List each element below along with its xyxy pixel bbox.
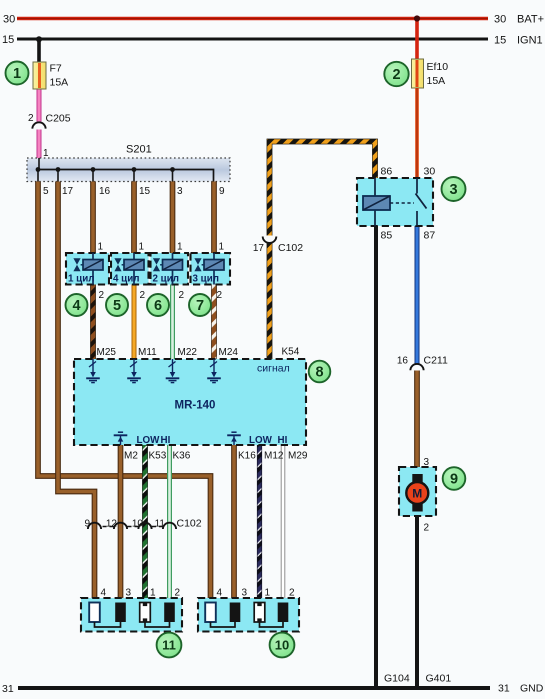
- svg-text:1: 1: [219, 242, 225, 253]
- svg-text:87: 87: [424, 230, 436, 242]
- svg-text:M12: M12: [264, 451, 284, 462]
- svg-text:2 цил: 2 цил: [153, 274, 179, 285]
- svg-text:M2: M2: [124, 451, 138, 462]
- svg-text:MR-140: MR-140: [175, 400, 216, 412]
- svg-text:M25: M25: [97, 347, 117, 358]
- svg-text:4: 4: [217, 588, 223, 599]
- svg-text:12: 12: [106, 519, 118, 530]
- svg-text:3: 3: [177, 186, 183, 197]
- svg-text:M11: M11: [138, 347, 157, 358]
- svg-text:IGN1: IGN1: [517, 35, 543, 47]
- svg-text:31: 31: [2, 683, 14, 695]
- svg-text:4: 4: [101, 588, 107, 599]
- svg-text:3: 3: [449, 182, 457, 198]
- svg-text:2: 2: [392, 67, 400, 83]
- svg-text:17: 17: [253, 243, 265, 254]
- svg-text:M: M: [412, 486, 422, 500]
- svg-text:3 цил: 3 цил: [193, 274, 219, 285]
- svg-text:4 цил: 4 цил: [113, 274, 139, 285]
- svg-text:1: 1: [150, 588, 156, 599]
- svg-text:K54: K54: [282, 347, 300, 358]
- svg-text:1: 1: [43, 148, 49, 159]
- svg-text:86: 86: [381, 166, 393, 178]
- svg-text:G104: G104: [384, 673, 410, 685]
- svg-text:F7: F7: [50, 63, 62, 75]
- svg-text:2: 2: [99, 290, 105, 301]
- svg-text:10: 10: [275, 638, 289, 653]
- svg-text:G401: G401: [426, 673, 452, 685]
- svg-text:M24: M24: [219, 347, 239, 358]
- svg-text:2: 2: [175, 588, 181, 599]
- svg-text:3: 3: [242, 588, 248, 599]
- svg-text:1: 1: [177, 242, 183, 253]
- svg-text:2: 2: [424, 523, 430, 534]
- svg-text:7: 7: [196, 298, 204, 314]
- svg-text:сигнал: сигнал: [257, 363, 290, 375]
- svg-text:Ef10: Ef10: [427, 61, 449, 73]
- svg-text:6: 6: [154, 298, 162, 314]
- svg-text:LOW: LOW: [137, 435, 161, 446]
- svg-text:2: 2: [140, 290, 146, 301]
- svg-text:LOW: LOW: [249, 435, 273, 446]
- svg-text:15A: 15A: [427, 75, 446, 87]
- svg-text:2: 2: [289, 588, 295, 599]
- svg-text:M22: M22: [178, 347, 198, 358]
- svg-text:9: 9: [450, 472, 458, 488]
- svg-text:11: 11: [155, 519, 166, 530]
- svg-text:C102: C102: [278, 242, 303, 254]
- svg-text:BAT+: BAT+: [517, 14, 544, 26]
- svg-text:2: 2: [179, 290, 185, 301]
- svg-text:30: 30: [424, 166, 436, 178]
- svg-text:2: 2: [28, 113, 34, 124]
- svg-text:30: 30: [3, 14, 15, 26]
- svg-text:S201: S201: [126, 144, 152, 156]
- svg-text:HI: HI: [278, 435, 288, 446]
- svg-text:1: 1: [139, 242, 145, 253]
- svg-text:1: 1: [13, 66, 21, 82]
- svg-text:2: 2: [217, 290, 223, 301]
- svg-text:1 цил: 1 цил: [68, 274, 94, 285]
- svg-text:5: 5: [113, 298, 121, 314]
- svg-text:15: 15: [2, 34, 14, 46]
- svg-text:3: 3: [424, 457, 430, 468]
- svg-text:30: 30: [494, 14, 506, 26]
- svg-text:16: 16: [99, 186, 111, 197]
- svg-text:HI: HI: [161, 435, 171, 446]
- svg-text:C211: C211: [424, 355, 448, 367]
- svg-text:GND: GND: [520, 683, 544, 695]
- svg-text:10: 10: [132, 519, 144, 530]
- svg-text:85: 85: [381, 230, 393, 242]
- svg-text:15: 15: [139, 186, 151, 197]
- svg-text:17: 17: [62, 186, 74, 197]
- svg-text:11: 11: [162, 638, 176, 653]
- svg-text:1: 1: [265, 588, 271, 599]
- svg-text:K53: K53: [149, 451, 167, 462]
- svg-text:15A: 15A: [50, 77, 69, 89]
- svg-text:M29: M29: [288, 451, 308, 462]
- svg-text:31: 31: [498, 683, 510, 695]
- svg-text:1: 1: [98, 242, 104, 253]
- svg-text:C205: C205: [46, 113, 71, 125]
- svg-text:K36: K36: [173, 451, 191, 462]
- svg-text:15: 15: [494, 35, 506, 47]
- svg-text:4: 4: [72, 298, 80, 314]
- svg-text:8: 8: [315, 365, 323, 381]
- svg-text:C102: C102: [177, 518, 202, 530]
- svg-text:16: 16: [397, 356, 409, 367]
- svg-text:3: 3: [126, 588, 132, 599]
- svg-text:9: 9: [84, 519, 90, 530]
- svg-text:K16: K16: [238, 451, 256, 462]
- svg-text:9: 9: [219, 186, 225, 197]
- svg-text:5: 5: [43, 186, 49, 197]
